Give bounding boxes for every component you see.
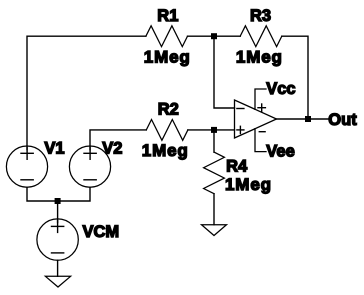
node junction V1/V2/VCM xyxy=(55,198,61,204)
wire V1 bottom to VCM node xyxy=(27,187,58,201)
op-amp U1 triangle xyxy=(235,100,277,138)
V1 plus mark xyxy=(21,152,33,154)
wire node to VCM top xyxy=(57,201,59,223)
svg-text:1Meg: 1Meg xyxy=(144,48,191,67)
node junction output xyxy=(305,116,311,122)
ground below VCM xyxy=(45,276,70,287)
VCM plus mark xyxy=(52,225,64,227)
V1 minus mark xyxy=(21,179,33,181)
wire V2 bottom to VCM node xyxy=(58,187,90,201)
svg-text:R2: R2 xyxy=(158,101,179,119)
ground below R4 xyxy=(202,225,227,236)
voltage source VCM circle xyxy=(37,219,78,260)
resistor R3 xyxy=(240,26,282,47)
wire R4 bottom to ground xyxy=(213,194,215,225)
wire V1 top to R1 left xyxy=(27,36,146,149)
svg-text:1Meg: 1Meg xyxy=(225,175,272,194)
op-amp negative supply minus mark xyxy=(259,131,265,133)
Vcc flag wire xyxy=(255,89,266,109)
voltage source V2 circle xyxy=(69,146,110,187)
op-amp inverting input minus mark xyxy=(237,108,244,110)
wire V2 top to R2 left xyxy=(90,130,146,150)
VCM minus mark xyxy=(52,252,64,254)
svg-text:V1: V1 xyxy=(44,139,64,157)
op-amp non-inverting input plus mark xyxy=(237,129,244,131)
wire node to inverting input xyxy=(214,36,235,108)
wire R3 right down to output node xyxy=(282,36,308,119)
svg-text:V2: V2 xyxy=(102,139,122,157)
resistor R2 xyxy=(146,120,188,141)
node junction R2/R4/non-inverting xyxy=(211,127,217,133)
resistor R1 xyxy=(146,26,188,47)
svg-text:1Meg: 1Meg xyxy=(236,48,283,67)
svg-text:R1: R1 xyxy=(157,7,178,25)
wire VCM bottom to ground xyxy=(57,260,59,276)
Vee flag wire xyxy=(255,129,266,152)
op-amp positive supply plus mark xyxy=(258,107,265,109)
svg-text:R4: R4 xyxy=(226,157,248,175)
V2 plus mark xyxy=(84,152,96,154)
wire R1 right to R3 left through node xyxy=(188,35,241,37)
node junction R1/R3/inverting xyxy=(211,33,217,39)
svg-text:Vee: Vee xyxy=(266,142,294,160)
wire node down to R4 xyxy=(213,130,215,152)
svg-text:R3: R3 xyxy=(250,7,271,25)
V2 minus mark xyxy=(84,179,96,181)
voltage source V1 circle xyxy=(6,146,47,187)
svg-text:1Meg: 1Meg xyxy=(142,141,189,160)
svg-text:VCM: VCM xyxy=(83,223,120,241)
svg-text:Out: Out xyxy=(328,111,357,129)
resistor R4 xyxy=(204,152,225,194)
wire op-amp output to Out xyxy=(277,118,329,120)
svg-text:Vcc: Vcc xyxy=(266,80,295,98)
wire R2 right to non-inverting input xyxy=(188,129,235,131)
